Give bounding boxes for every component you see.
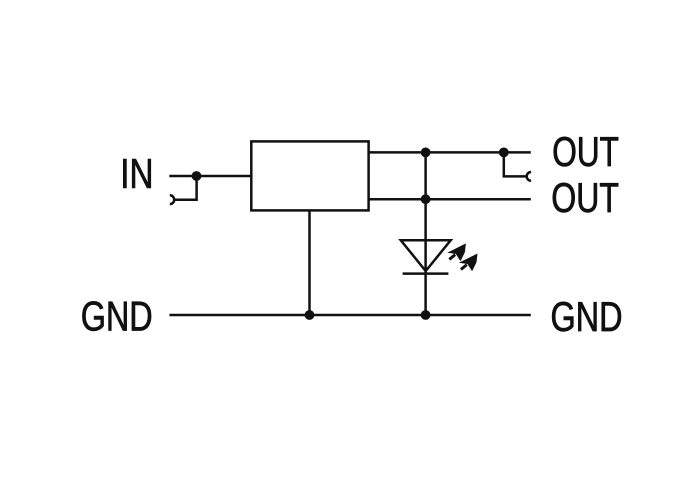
wire OUT lower (369, 198, 531, 201)
regulator U1 (converter block) (251, 141, 368, 210)
wire OUT socket drop (504, 153, 527, 176)
wire IN stub to regulator (169, 175, 251, 178)
LED emission arrow 1 (447, 243, 466, 261)
node OUT label upper (554, 137, 618, 167)
junction GND / LED branch (421, 310, 431, 320)
socket contact IN (170, 195, 174, 204)
socket contact OUT (527, 172, 531, 181)
junction GND / regulator (305, 310, 315, 320)
wire LED branch vertical (424, 152, 427, 315)
node IN label (123, 159, 150, 188)
wire IN socket to junction (174, 176, 197, 200)
wire regulator GND vertical (308, 210, 311, 315)
junction upper OUT / LED branch (421, 148, 431, 158)
junction upper OUT / socket drop (499, 148, 509, 158)
LED cathode bar (403, 272, 449, 275)
LED indicator (401, 240, 451, 271)
junction lower OUT / LED branch (421, 194, 431, 204)
node GND label left (82, 301, 151, 331)
junction IN node (192, 171, 202, 181)
wire GND bus (169, 314, 530, 317)
LED emission arrow 2 (459, 254, 478, 272)
node OUT label lower (553, 183, 618, 213)
node GND label right (552, 302, 621, 332)
wire OUT upper (369, 151, 531, 154)
